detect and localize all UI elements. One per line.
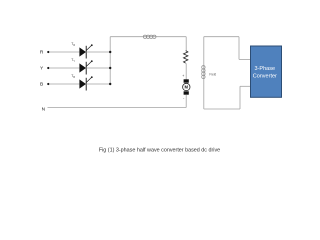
svg-text:3-Phase: 3-Phase bbox=[255, 66, 276, 72]
inductor L (smoothing choke) bbox=[143, 35, 156, 38]
wire cathode bus vertical bbox=[109, 37, 111, 84]
svg-text:Converter: Converter bbox=[253, 73, 277, 79]
svg-text:B: B bbox=[40, 82, 43, 88]
wire N neutral line bbox=[48, 107, 187, 109]
wire motor to N line bbox=[185, 95, 187, 108]
svg-text:N: N bbox=[42, 106, 46, 112]
svg-text:M: M bbox=[185, 85, 189, 90]
node R terminal dot bbox=[47, 51, 49, 53]
converter box U1 bbox=[251, 46, 282, 97]
wire resistor to motor bbox=[185, 63, 187, 79]
wire Y phase to thyristor bbox=[49, 67, 79, 69]
wire field loop top horizontal bbox=[204, 36, 239, 38]
node Y terminal dot bbox=[47, 67, 49, 69]
wire field loop bottom horizontal bbox=[204, 108, 240, 110]
junction dot Y bbox=[109, 67, 111, 69]
junction dot B bbox=[109, 83, 111, 85]
svg-text:R: R bbox=[40, 50, 44, 56]
wire field loop right lower vertical bbox=[239, 86, 241, 109]
inductor field winding bbox=[202, 66, 205, 79]
wire field loop left vertical bbox=[203, 37, 205, 109]
motor M armature bbox=[182, 74, 190, 100]
resistor Ra (armature) bbox=[184, 51, 188, 64]
svg-text:Field: Field bbox=[209, 73, 216, 77]
junction dot R bbox=[109, 51, 111, 53]
wire right leg upper bbox=[185, 37, 187, 51]
thyristor T_R bbox=[71, 42, 92, 59]
thyristor T_B bbox=[71, 74, 92, 91]
wire top horizontal bbox=[110, 36, 186, 38]
svg-text:Fig (1) 3-phase half wave con: Fig (1) 3-phase half wave converter base… bbox=[99, 148, 220, 154]
wire stub to converter top bbox=[239, 58, 251, 60]
thyristor T_Y bbox=[71, 58, 92, 75]
wire stub to converter bottom bbox=[240, 85, 251, 87]
node B terminal dot bbox=[47, 83, 49, 85]
wire B phase to thyristor bbox=[49, 83, 79, 85]
wire R phase to thyristor bbox=[49, 51, 79, 53]
wire thyristor B to bus bbox=[86, 83, 110, 85]
svg-text:+: + bbox=[182, 74, 184, 78]
wire field loop right upper vertical bbox=[238, 37, 240, 60]
wire thyristor R to bus bbox=[86, 51, 110, 53]
wire thyristor Y to bus bbox=[86, 67, 110, 69]
